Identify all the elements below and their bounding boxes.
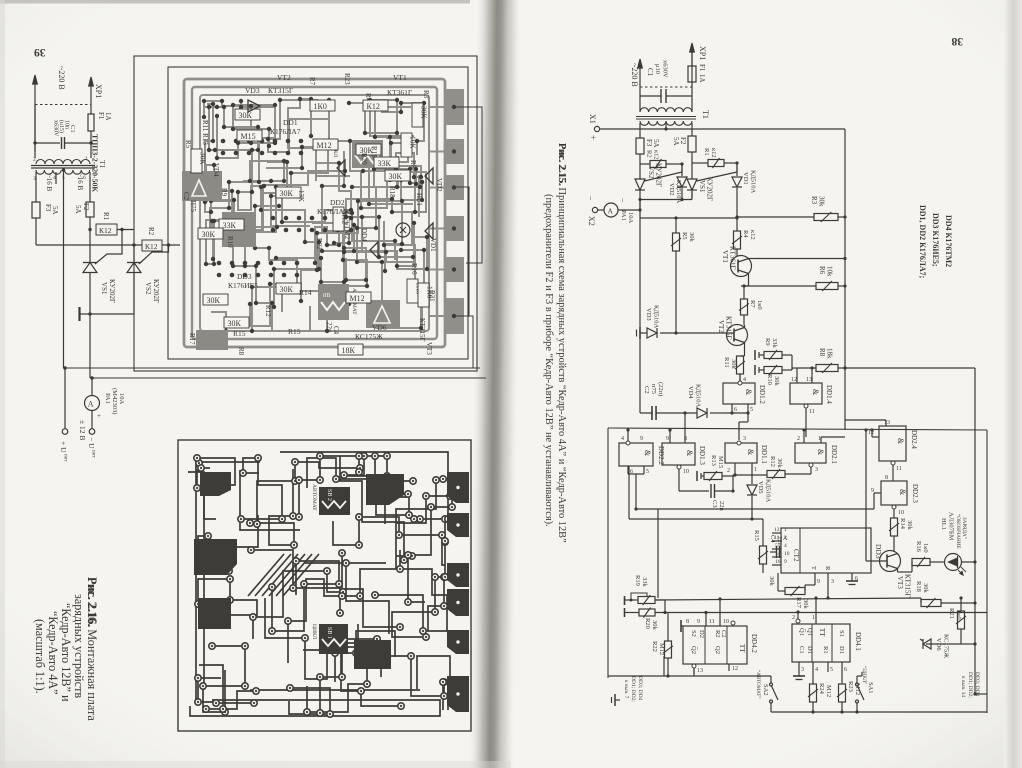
left rail down <box>639 210 641 333</box>
svg-text:R20: R20 <box>360 153 368 165</box>
svg-text:13К: 13К <box>297 190 305 202</box>
svg-text:R2: R2 <box>714 630 721 638</box>
right page edge <box>1004 0 1022 768</box>
svg-text:VT3: VT3 <box>425 342 433 355</box>
svg-text:R24: R24 <box>818 683 825 695</box>
svg-text:30К: 30К <box>280 189 294 198</box>
NAND gate DD1.3 <box>662 443 695 465</box>
VS2 gate wire <box>645 164 683 181</box>
svg-text:R7: R7 <box>308 77 316 86</box>
svg-text:х630V: х630V <box>662 60 669 78</box>
svg-text:R8: R8 <box>818 348 826 357</box>
svg-text:DD2.3: DD2.3 <box>911 484 919 503</box>
VS1 gate wire <box>95 230 122 265</box>
svg-text:1: 1 <box>812 615 815 621</box>
switch SB2 avtomat <box>319 487 350 515</box>
svg-text:Q1: Q1 <box>806 628 813 636</box>
resistor R21 1k0 <box>958 611 965 629</box>
svg-text:4: 4 <box>743 377 746 383</box>
svg-text:&: & <box>643 450 652 457</box>
svg-text:&: & <box>898 489 907 496</box>
DD4.1 pins top <box>796 619 800 623</box>
DD1.4 output 11 <box>804 404 808 408</box>
ammeter PA1 left fig <box>85 396 100 411</box>
node to R5/R4 rail <box>640 217 676 219</box>
resistor R2 k12 <box>640 163 650 165</box>
resistor R3 30k <box>814 214 838 221</box>
svg-text:“Кедр-Авто 4А”: “Кедр-Авто 4А” <box>46 611 60 695</box>
svg-text:VT2: VT2 <box>277 73 291 82</box>
DD2.1 output 3 <box>809 463 813 467</box>
main dc wire y245 <box>36 244 142 246</box>
svg-text:VT3: VT3 <box>896 576 904 589</box>
ground <box>793 675 805 677</box>
transformer secondary windings <box>36 170 61 174</box>
svg-text:Т1: Т1 <box>701 110 710 119</box>
svg-text:&: & <box>685 450 694 457</box>
svg-text:КТ315Г: КТ315Г <box>268 86 294 95</box>
resistor R13 M15 with test bar <box>696 471 698 481</box>
svg-text:R16: R16 <box>915 541 922 553</box>
svg-text:VD4: VD4 <box>687 386 694 399</box>
svg-text:~220 В: ~220 В <box>630 63 639 87</box>
capacitor C4 22n <box>776 546 778 558</box>
svg-text:18k: 18k <box>826 348 834 359</box>
svg-text:6: 6 <box>734 407 737 413</box>
left scan edge <box>0 0 5 768</box>
resistor R1 k12 <box>692 162 708 164</box>
svg-text:VD3: VD3 <box>645 308 652 321</box>
svg-text:R23: R23 <box>847 681 854 692</box>
DD4.1 pins bottom <box>798 662 800 672</box>
svg-text:R8: R8 <box>237 347 245 356</box>
svg-text:&: & <box>816 449 825 456</box>
DD2.2 output pins 5,6 bottom <box>627 466 629 474</box>
svg-text:30К: 30К <box>280 285 294 294</box>
svg-text:“АВТОМАТ”: “АВТОМАТ” <box>755 670 761 699</box>
svg-text:КД510А: КД510А <box>765 479 772 503</box>
svg-text:~220 В: ~220 В <box>57 66 66 90</box>
svg-text:А: А <box>608 207 614 216</box>
svg-text:30К: 30К <box>420 106 429 120</box>
svg-text:ХР1: ХР1 <box>94 84 103 98</box>
svg-text:3: 3 <box>801 667 804 673</box>
svg-text:D1: D1 <box>838 646 845 654</box>
right bus vertical x845 <box>844 129 846 430</box>
svg-text:10: 10 <box>784 551 790 557</box>
svg-text:9: 9 <box>666 436 669 442</box>
svg-text:22n: 22n <box>776 536 783 547</box>
svg-text:(22п): (22п) <box>657 382 664 396</box>
svg-text:DD2.1: DD2.1 <box>830 445 838 464</box>
VT2 base wire <box>660 332 734 334</box>
copper blob top-right <box>366 474 404 505</box>
svg-text:“ЦИКЛ”: “ЦИКЛ” <box>861 666 867 684</box>
DD4.2 pins bottom <box>693 664 695 674</box>
arrow mains left <box>34 84 36 152</box>
svg-text:30k: 30k <box>922 583 929 594</box>
svg-text:DD4.1: DD4.1 <box>854 632 862 651</box>
board trace border outer <box>184 79 445 347</box>
svg-text:С3: С3 <box>711 500 718 508</box>
edge pads right column <box>444 89 464 125</box>
svg-text:РА1: РА1 <box>620 210 627 221</box>
left feedback wires <box>658 508 874 510</box>
DD2.3 output 10 <box>892 505 896 509</box>
svg-text:R15: R15 <box>288 327 301 336</box>
transformer T1 primary winding <box>640 108 692 112</box>
pad connection wires to output <box>455 107 482 263</box>
svg-text:(предохранители F2 и F3 в приб: (предохранители F2 и F3 в приборе “Кедр-… <box>543 194 554 527</box>
component blob R10 area <box>222 212 256 247</box>
svg-text:D1: D1 <box>806 646 813 654</box>
svg-text:КУ202Г: КУ202Г <box>108 279 116 303</box>
svg-text:DD3; DD4: DD3; DD4 <box>637 676 643 701</box>
svg-text:КД510А: КД510А <box>695 384 702 408</box>
svg-text:“Кедр-Авто 12В” и: “Кедр-Авто 12В” и <box>59 603 73 702</box>
svg-text:SB 1: SB 1 <box>326 627 332 639</box>
VT1 collector wire to bus <box>749 258 756 260</box>
svg-text:−: − <box>618 198 627 203</box>
svg-text:DD1; DD2;: DD1; DD2; <box>967 672 973 698</box>
dashed plug line <box>35 104 91 106</box>
top scan edge <box>0 0 470 4</box>
svg-text:SB 2: SB 2 <box>326 489 332 501</box>
svg-text:R15: R15 <box>233 329 246 338</box>
bus x975 vertical <box>974 368 976 644</box>
zener VD6 KS175Zh <box>926 643 961 645</box>
svg-text:12: 12 <box>732 666 738 672</box>
svg-text:R17: R17 <box>188 333 196 345</box>
svg-text:2: 2 <box>792 615 795 621</box>
terminal X1 <box>594 126 599 131</box>
wire from DD1.3 out down to rail y519 <box>629 518 763 520</box>
svg-text:R7: R7 <box>749 300 756 308</box>
transformer core <box>31 165 95 167</box>
cathode join wire <box>639 200 641 211</box>
diode triangles on board <box>248 100 260 112</box>
resistor R8 18k <box>816 365 838 372</box>
svg-text:R13: R13 <box>710 455 717 466</box>
svg-text:DD4 К176ТМ2: DD4 К176ТМ2 <box>944 215 953 267</box>
large copper blob mid-left <box>194 539 237 575</box>
wire R18 zone <box>920 598 922 603</box>
svg-text:DD1.1: DD1.1 <box>760 445 768 464</box>
svg-text:−: − <box>586 196 595 201</box>
svg-text:(масштаб 1:1).: (масштаб 1:1). <box>33 619 47 694</box>
svg-text:R22: R22 <box>651 641 658 652</box>
svg-text:VT2: VT2 <box>717 320 725 333</box>
svg-text:4: 4 <box>815 667 818 673</box>
svg-text:2: 2 <box>797 436 800 442</box>
large copper blob top-left <box>200 472 231 496</box>
svg-text:DD1.2: DD1.2 <box>758 385 766 404</box>
svg-text:12: 12 <box>791 377 797 383</box>
resistor R23 M12 <box>839 684 846 702</box>
fuse F3 5A <box>636 138 644 154</box>
svg-text:&: & <box>746 449 755 456</box>
DD2.4 output 11 <box>891 461 895 465</box>
svg-text:М12: М12 <box>317 141 332 150</box>
svg-text:+: + <box>97 412 101 420</box>
capacitor C1 left fig <box>34 105 36 159</box>
svg-text:R10: R10 <box>226 236 234 248</box>
svg-text:11: 11 <box>709 619 715 625</box>
ground wire left fig <box>80 313 135 315</box>
svg-text:DD1.4: DD1.4 <box>825 385 833 404</box>
switch SA2 AVTOMAT <box>694 675 771 677</box>
svg-text:R18: R18 <box>915 581 922 592</box>
DD3 pins bottom <box>814 573 816 585</box>
NAND gate DD1.2 <box>723 383 755 404</box>
svg-text:VD5: VD5 <box>757 481 764 494</box>
svg-text:R3: R3 <box>810 196 818 205</box>
svg-text:R4: R4 <box>364 93 372 102</box>
svg-text:п75: п75 <box>650 384 657 394</box>
svg-text:18К: 18К <box>342 346 356 355</box>
svg-text:1А: 1А <box>698 74 706 83</box>
transformer T1 left fig primary <box>36 160 90 164</box>
svg-text:3: 3 <box>743 436 746 442</box>
wire pin2 junction to R12 <box>735 474 767 476</box>
svg-text:Х2: Х2 <box>587 216 596 226</box>
svg-text:S2: S2 <box>690 630 697 637</box>
svg-text:10А: 10А <box>627 212 634 224</box>
thyristor VS1 left fig <box>83 263 97 273</box>
svg-text:VD3: VD3 <box>245 86 260 95</box>
svg-text:Q̅2: Q̅2 <box>690 646 697 654</box>
DD1.3 output 10 <box>677 465 681 469</box>
NAND gate DD2.3 <box>881 481 907 505</box>
outer frame <box>134 56 477 371</box>
VT2 emitter-collector wires <box>744 343 746 357</box>
NAND gate DD2.2 <box>619 443 653 466</box>
svg-text:VD2: VD2 <box>435 178 443 192</box>
svg-text:8: 8 <box>885 475 888 481</box>
DD1.1 pins 1,2 bottom <box>734 463 736 475</box>
svg-text:Х1: Х1 <box>588 114 597 124</box>
svg-text:10: 10 <box>723 619 729 625</box>
resistor R18 30k <box>921 600 941 607</box>
long rail y599 <box>655 598 921 600</box>
svg-text:R3: R3 <box>422 90 430 99</box>
svg-text:R19: R19 <box>370 146 378 158</box>
svg-text:VD2: VD2 <box>668 183 675 196</box>
svg-text:КТ361Г: КТ361Г <box>387 88 413 97</box>
svg-text:К176ТМ2: К176ТМ2 <box>343 210 351 240</box>
svg-text:R5: R5 <box>681 232 688 240</box>
svg-text:10К: 10К <box>409 136 418 150</box>
svg-text:КТ315Г: КТ315Г <box>904 574 912 598</box>
svg-text:2: 2 <box>727 468 730 474</box>
svg-text:М15: М15 <box>717 456 724 468</box>
svg-text:DD2.4: DD2.4 <box>910 430 918 449</box>
svg-text:к выв. 7: к выв. 7 <box>623 680 629 699</box>
svg-text:А: А <box>88 400 94 409</box>
svg-text:R21: R21 <box>948 608 955 619</box>
svg-text:1: 1 <box>784 527 787 533</box>
flip-flop DD4.2 <box>683 626 747 664</box>
component blob battery body 2 <box>352 140 383 168</box>
svg-text:Q2: Q2 <box>714 646 721 654</box>
svg-text:± 12 В: ± 12 В <box>78 420 87 440</box>
svg-text:30k: 30k <box>768 576 775 587</box>
svg-text:АЛ307БМ: АЛ307БМ <box>948 512 955 541</box>
board trace loop 3 <box>200 95 429 331</box>
thyristor VS2 left fig <box>133 245 135 263</box>
capacitor C2 n75 <box>651 406 653 420</box>
svg-text:DD1: DD1 <box>283 118 298 127</box>
dashed plug line XP1 <box>640 86 692 88</box>
DD3 pins left side <box>772 532 781 534</box>
winding stubs <box>639 108 641 112</box>
svg-text:SA2: SA2 <box>762 684 769 696</box>
svg-text:30К: 30К <box>199 152 208 166</box>
svg-text:30k: 30k <box>773 376 780 387</box>
bottom rail <box>771 711 987 713</box>
contact bar R20 <box>624 608 626 617</box>
svg-text:R2: R2 <box>646 150 653 158</box>
svg-text:Q̅1: Q̅1 <box>798 628 805 636</box>
VT3 emitter to R16 <box>897 569 899 573</box>
svg-text:F1: F1 <box>698 64 706 72</box>
svg-text:3: 3 <box>831 579 834 585</box>
bottom left rail <box>608 675 694 677</box>
svg-text:К176ИЕ5: К176ИЕ5 <box>228 281 258 290</box>
VT3 base wire from bus <box>866 560 887 562</box>
svg-text:8: 8 <box>686 619 689 625</box>
transistor VT3 KT315G <box>880 551 901 572</box>
pad dots on traces <box>215 105 219 109</box>
resistor R15 30k <box>760 546 767 564</box>
thyristor VS1 KU202G <box>691 160 693 179</box>
NAND gate DD2.1 <box>795 443 826 463</box>
thyristor VS2 KU202G <box>639 160 641 179</box>
svg-text:к выв. 14: к выв. 14 <box>960 676 966 697</box>
ground at VD3 <box>639 327 641 339</box>
svg-text:5А: 5А <box>74 205 82 214</box>
svg-text:к12: к12 <box>653 150 660 160</box>
switch SB1 tsikl <box>319 624 348 654</box>
arrow ~220V <box>639 68 641 108</box>
resistor R4 k12 <box>736 218 738 231</box>
transistor VT1 KT361G <box>731 256 752 277</box>
svg-text:F1: F1 <box>97 112 105 120</box>
svg-text:9: 9 <box>817 579 820 585</box>
svg-text:х630V: х630V <box>53 120 59 137</box>
svg-text:VS2: VS2 <box>647 166 655 179</box>
svg-text:пит: пит <box>63 454 68 462</box>
svg-text:30k: 30k <box>802 599 809 610</box>
svg-text:S1: S1 <box>838 630 845 637</box>
svg-text:П75: П75 <box>189 200 197 213</box>
component blob VD4 area <box>182 171 222 201</box>
VT1 emitter down <box>748 274 750 287</box>
svg-text:5: 5 <box>830 667 833 673</box>
svg-text:13: 13 <box>697 668 703 674</box>
svg-text:ХР1: ХР1 <box>698 46 707 60</box>
left rail from VD3 zone down <box>639 333 641 413</box>
R1 K12 box <box>96 224 117 235</box>
svg-text:30k: 30k <box>688 232 695 243</box>
svg-text:R6: R6 <box>818 266 826 275</box>
wire DD1.2out down to DD1.1 <box>747 413 749 422</box>
transformer T1 secondary windings <box>640 121 666 125</box>
svg-text:30К: 30К <box>239 111 253 120</box>
resistor R22 M12 <box>665 641 672 658</box>
wire DD3 pin T down-left <box>805 584 815 586</box>
svg-text:R17: R17 <box>795 597 802 609</box>
resistor R16 1k0 <box>912 559 930 566</box>
wire emitter to R6 <box>744 285 816 287</box>
component blob VD6 area <box>366 300 400 328</box>
svg-text:30k: 30k <box>818 196 826 207</box>
svg-text:30k: 30k <box>906 520 913 531</box>
svg-text:SA1: SA1 <box>867 682 874 694</box>
svg-text:R21: R21 <box>428 290 436 302</box>
svg-text:12: 12 <box>774 527 780 533</box>
R19 jumper <box>631 593 647 600</box>
svg-text:VT1: VT1 <box>721 250 729 263</box>
svg-text:VD1: VD1 <box>742 172 749 185</box>
svg-text:30К: 30К <box>202 230 216 239</box>
svg-text:М12: М12 <box>825 685 832 697</box>
svg-text:R22: R22 <box>315 238 323 250</box>
svg-text:DD1, DD2 К176ЛА7;: DD1, DD2 К176ЛА7; <box>918 205 927 279</box>
resistor R11 30k <box>737 356 744 374</box>
diode VD1 KD510A <box>736 163 738 176</box>
svg-text:R1: R1 <box>703 148 710 156</box>
wire VT1 to R7 <box>743 286 745 299</box>
svg-text:30k: 30k <box>776 458 783 469</box>
svg-text:к12: к12 <box>710 148 717 158</box>
svg-text:Рис. 2.15. Принципиальная схем: Рис. 2.15. Принципиальная схема зарядных… <box>556 143 567 543</box>
board trace border inner <box>192 87 437 339</box>
svg-text:R20: R20 <box>644 618 651 629</box>
component blob avtomat battery <box>318 284 349 320</box>
fuse F2 5A <box>688 136 696 152</box>
enclosure right edge <box>986 430 988 713</box>
PCB traces maze <box>204 99 427 331</box>
svg-text:1к0: 1к0 <box>756 300 763 310</box>
svg-text:СТ2: СТ2 <box>792 549 800 562</box>
svg-text:~16 В: ~16 В <box>76 173 84 191</box>
DD1.2 output pins 5,6 <box>731 404 733 413</box>
svg-text:R1: R1 <box>822 646 829 654</box>
svg-text:μ10: μ10 <box>654 64 661 74</box>
svg-text:39: 39 <box>34 46 46 58</box>
flip-flop DD4.1 <box>792 624 850 662</box>
terminal X2 <box>592 207 597 212</box>
resistor R10 30k <box>759 369 764 371</box>
svg-text:К12: К12 <box>367 102 380 111</box>
wire junction to R8 <box>810 366 813 369</box>
svg-text:38: 38 <box>951 35 963 47</box>
svg-text:R5: R5 <box>184 140 192 149</box>
svg-text:к12: к12 <box>749 230 756 240</box>
svg-text:10k: 10k <box>826 266 834 277</box>
svg-text:пит: пит <box>91 450 96 458</box>
resistor R19 33k <box>625 599 639 601</box>
svg-text:33k: 33k <box>641 577 648 588</box>
arrow XP1 <box>691 52 693 66</box>
svg-text:30К: 30К <box>389 172 403 181</box>
svg-text:ТТ: ТТ <box>818 628 826 637</box>
contact bar R19 <box>624 596 626 605</box>
svg-text:С2: С2 <box>720 630 727 638</box>
LED HL1 AL307BM <box>945 554 962 571</box>
diode VD5 KD510A <box>751 481 753 484</box>
